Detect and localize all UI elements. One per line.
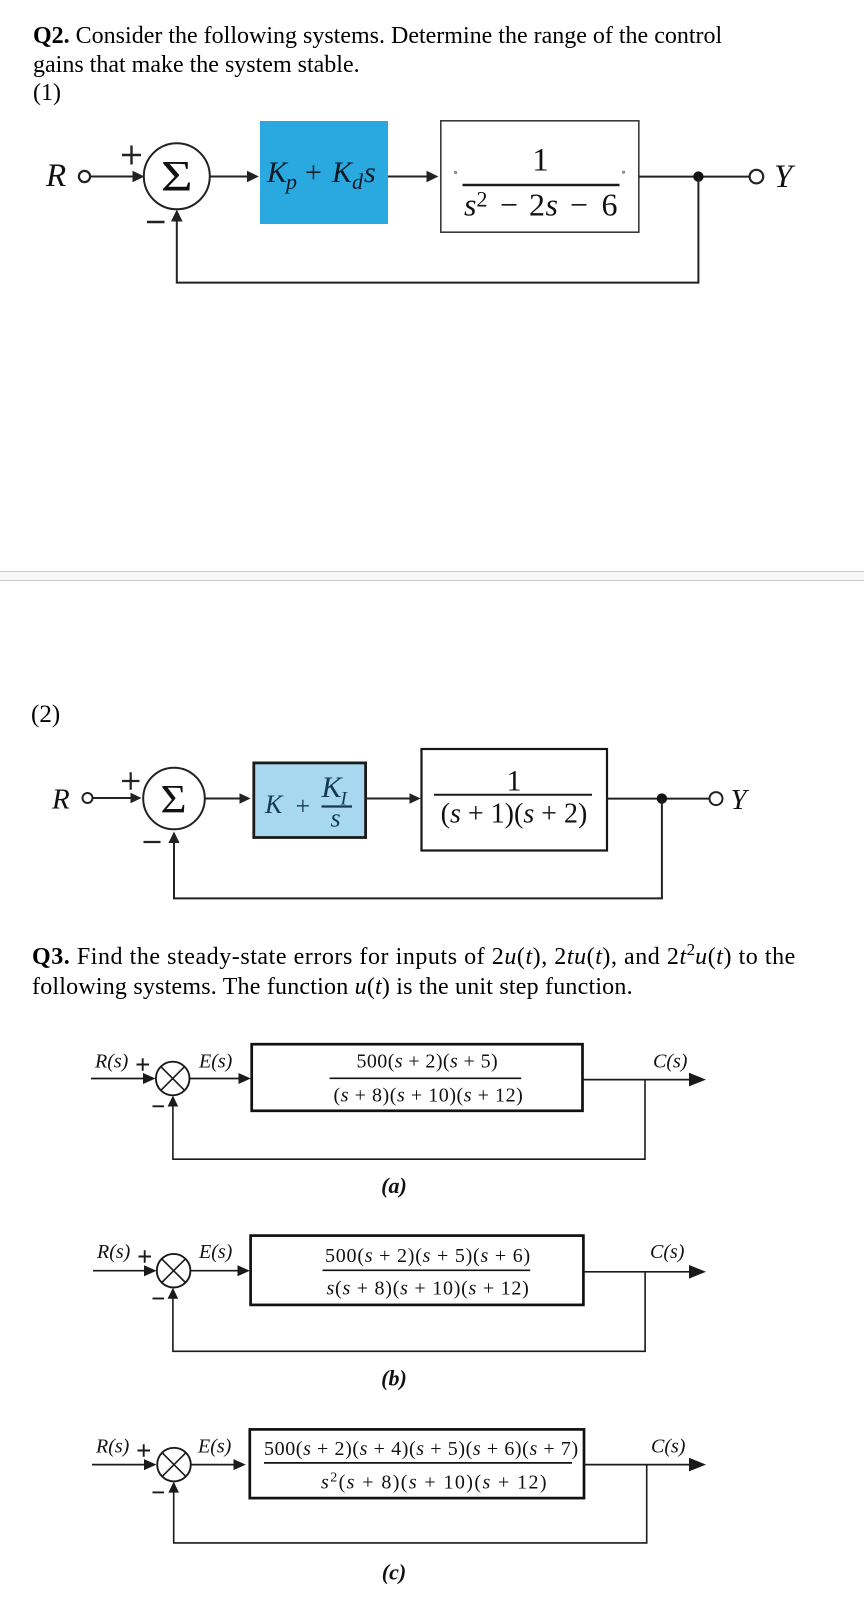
wire plant to output terminal [607, 798, 710, 800]
arrowhead into block [234, 1459, 246, 1470]
fraction bar (b) [323, 1269, 531, 1271]
input terminal circle R [79, 171, 90, 182]
wire controller to plant block [388, 176, 429, 178]
svg-text:p: p [284, 169, 297, 194]
Q3 prompt line 1 [32, 943, 796, 973]
svg-text:2: 2 [477, 187, 488, 212]
controller block Kp+Kds (blue) [260, 121, 388, 224]
feedback wire loop [174, 799, 662, 899]
svg-text:s(s + 8)(s + 10)(s + 12): s(s + 8)(s + 10)(s + 12) [327, 1278, 530, 1300]
arrowhead into summer [144, 1459, 157, 1470]
svg-text:Σ: Σ [160, 778, 186, 822]
svg-text:(a): (a) [381, 1173, 407, 1198]
wire summer to PI block [205, 798, 242, 800]
output terminal circle Y [710, 792, 723, 805]
svg-text:+: + [305, 156, 322, 189]
svg-text:(c): (c) [382, 1560, 406, 1585]
svg-text:(s + 1)(s + 2): (s + 1)(s + 2) [441, 799, 588, 830]
minus sign at feedback input [153, 1491, 165, 1493]
wire block to output [583, 1079, 693, 1081]
arrowhead into summer bottom [168, 1288, 179, 1299]
svg-text:C(s): C(s) [653, 1051, 688, 1073]
svg-text:R(s): R(s) [94, 1051, 129, 1073]
plus sign at summer input [138, 1444, 151, 1456]
arrowhead into summer [144, 1265, 157, 1276]
plus sign at summer input [122, 772, 140, 789]
arrowhead into controller block [247, 171, 259, 182]
plant block 1/((s+1)(s+2)) [422, 749, 608, 851]
controller label Kp+Kds [266, 156, 376, 194]
output arrowhead C(s) [689, 1265, 706, 1279]
svg-text:K: K [331, 156, 354, 189]
svg-text:1: 1 [532, 143, 549, 179]
feedback wire loop (a) [173, 1080, 645, 1160]
svg-text:2: 2 [529, 187, 545, 223]
wire R to summer [91, 176, 136, 178]
output arrowhead C(s) [689, 1073, 706, 1087]
svg-text:K: K [264, 790, 284, 819]
svg-text:E(s): E(s) [198, 1241, 233, 1263]
fraction bar (a) [330, 1077, 522, 1079]
feedback pickoff node [693, 171, 703, 181]
summer circle with cross [157, 1448, 191, 1482]
feedback wire loop (b) [173, 1272, 645, 1352]
arrowhead into summer [143, 1073, 156, 1084]
wire PI to plant block [366, 798, 412, 800]
Q2 prompt line 1 [33, 22, 722, 50]
stray dot right of fraction [622, 171, 625, 174]
PI fraction bar [322, 805, 353, 807]
svg-text:(b): (b) [381, 1366, 407, 1391]
svg-text:s: s [364, 156, 376, 189]
plus sign at summer input [139, 1250, 152, 1262]
feedback pickoff node [657, 793, 667, 803]
svg-text:R(s): R(s) [95, 1436, 130, 1458]
wire R(s) to summer [91, 1078, 146, 1080]
wire summer to block [191, 1464, 236, 1466]
minus sign at feedback input [144, 841, 161, 843]
svg-text:(s + 8)(s + 10)(s + 12): (s + 8)(s + 10)(s + 12) [334, 1085, 524, 1107]
output terminal circle Y [750, 170, 764, 184]
svg-text:−: − [500, 187, 518, 223]
arrowhead into summer bottom [168, 832, 179, 844]
svg-text:s2(s + 8)(s + 10)(s + 12): s2(s + 8)(s + 10)(s + 12) [321, 1471, 548, 1494]
arrowhead into summer bottom [168, 1482, 179, 1493]
output arrowhead C(s) [689, 1458, 706, 1472]
summer U2 circle [143, 768, 205, 830]
wire R to summer [93, 797, 133, 799]
summer cross lines [162, 1259, 186, 1283]
wire plant to output terminal [639, 176, 749, 178]
svg-text:C(s): C(s) [650, 1241, 685, 1263]
wire R(s) to summer [92, 1464, 147, 1466]
PI controller block K+KI/s (light blue) [254, 763, 366, 838]
svg-text:d: d [352, 169, 364, 194]
arrowhead into summer [131, 793, 142, 804]
label (2) [31, 701, 60, 729]
svg-text:Σ: Σ [161, 152, 193, 200]
summer circle with cross [157, 1254, 191, 1288]
plant block 1/(s^2-2s-6) [441, 121, 639, 232]
svg-text:R(s): R(s) [96, 1241, 131, 1263]
wire R(s) to summer [93, 1270, 147, 1272]
feedback wire loop [177, 177, 699, 283]
svg-text:Y: Y [774, 159, 796, 195]
svg-text:500(s + 2)(s + 5)(s + 6): 500(s + 2)(s + 5)(s + 6) [325, 1245, 531, 1267]
summer cross lines [161, 1067, 185, 1091]
arrowhead into summer bottom [168, 1096, 179, 1107]
plant block G(s) (c) [250, 1429, 584, 1498]
stray dot left of fraction [454, 171, 457, 174]
svg-text:C(s): C(s) [651, 1436, 686, 1458]
Q3 prompt line 2 [32, 973, 633, 1001]
minus sign at feedback input [153, 1298, 165, 1300]
wire summer to block [190, 1078, 241, 1080]
wire block to output [583, 1271, 692, 1273]
plus sign at summer input [137, 1058, 150, 1070]
svg-text:R: R [45, 158, 66, 194]
wire summer to controller block [210, 176, 250, 178]
arrowhead into plant block [427, 171, 439, 182]
minus sign at feedback input [147, 221, 165, 223]
arrowhead into summer [133, 171, 145, 182]
arrowhead into PI block [240, 793, 251, 804]
wire block to output [584, 1464, 692, 1466]
svg-text:s: s [546, 187, 558, 223]
plant denominator s^2-2s-6 [464, 187, 618, 223]
svg-text:1: 1 [507, 765, 522, 798]
arrowhead into block [238, 1265, 250, 1276]
svg-text:R: R [51, 784, 70, 816]
svg-text:500(s + 2)(s + 4)(s + 5)(s + 6: 500(s + 2)(s + 4)(s + 5)(s + 6)(s + 7) [264, 1438, 579, 1460]
input terminal circle R [83, 793, 93, 803]
svg-text:Y: Y [731, 784, 750, 816]
wire summer to block [191, 1270, 240, 1272]
svg-text:+: + [296, 792, 311, 821]
summer cross lines [162, 1453, 186, 1477]
svg-text:500(s + 2)(s + 5): 500(s + 2)(s + 5) [357, 1050, 499, 1072]
summer U1 circle [144, 143, 210, 209]
arrowhead into summer bottom [171, 210, 183, 222]
feedback wire loop (c) [174, 1465, 647, 1543]
svg-text:−: − [570, 187, 588, 223]
svg-text:s: s [464, 187, 476, 223]
Q2 prompt line 2 [33, 51, 360, 79]
svg-text:E(s): E(s) [197, 1436, 232, 1458]
plant block G(s) (a) [252, 1044, 583, 1111]
arrowhead into plant block [410, 793, 421, 804]
plant block G(s) (b) [251, 1236, 584, 1305]
plant fraction bar [463, 184, 620, 187]
summer circle with cross [156, 1062, 190, 1096]
svg-text:s: s [331, 804, 341, 833]
svg-text:6: 6 [602, 187, 618, 223]
page separator band [0, 571, 864, 581]
minus sign at feedback input [153, 1105, 165, 1107]
svg-text:E(s): E(s) [198, 1051, 233, 1073]
fraction bar (c) [264, 1462, 572, 1464]
plant fraction bar [434, 794, 592, 796]
label (1) [33, 79, 61, 107]
arrowhead into block [239, 1073, 251, 1084]
plus sign at summer input [122, 146, 141, 165]
